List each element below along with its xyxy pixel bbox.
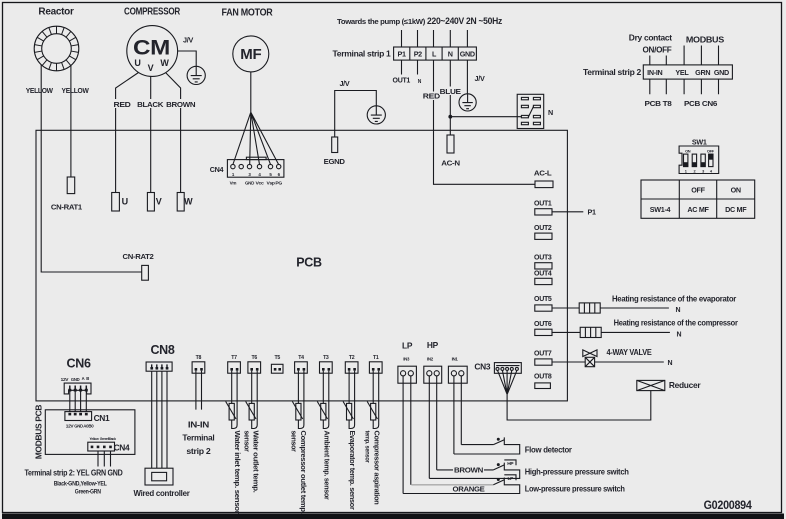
svg-text:CN4: CN4 — [114, 442, 130, 452]
svg-text:Towards the pump (≤1kW): Towards the pump (≤1kW) — [337, 17, 426, 26]
svg-text:P1: P1 — [588, 208, 596, 217]
wire OUT5 to heater — [552, 307, 669, 309]
label BROWN — [166, 99, 196, 108]
svg-text:T2: T2 — [349, 355, 355, 361]
water inlet temp. sensor — [226, 371, 243, 514]
fan motor MF — [233, 36, 269, 72]
svg-text:temp. sensor: temp. sensor — [363, 431, 370, 464]
svg-text:PG: PG — [275, 180, 282, 185]
wires IN pins down — [403, 376, 461, 494]
svg-text:J/V: J/V — [339, 79, 349, 88]
connector T8 — [192, 355, 205, 373]
svg-text:V: V — [148, 63, 154, 73]
svg-text:IN-IN: IN-IN — [647, 68, 662, 77]
svg-text:Terminal: Terminal — [182, 433, 214, 443]
fan wire harness to CN4 — [233, 112, 279, 164]
svg-text:P1: P1 — [397, 50, 405, 59]
svg-text:Evaporator temp. sensor: Evaporator temp. sensor — [348, 431, 357, 510]
svg-text:Terminal strip 2: Terminal strip 2 — [583, 67, 642, 77]
heating resistance of the evaporator — [579, 303, 600, 313]
label RED — [110, 99, 134, 108]
svg-text:N: N — [548, 108, 553, 117]
wire N (BLUE) down to AC-N — [449, 60, 451, 135]
wires CN4 down — [98, 451, 111, 467]
terminal W — [177, 193, 184, 212]
flow detector loop — [454, 437, 520, 454]
SW1 table — [641, 180, 755, 218]
svg-text:sensor: sensor — [242, 431, 251, 452]
svg-text:J/V: J/V — [475, 74, 485, 83]
svg-text:MODBUS: MODBUS — [686, 35, 725, 45]
svg-text:Ambient temp. sensor: Ambient temp. sensor — [322, 431, 331, 500]
svg-text:CN3: CN3 — [474, 362, 490, 372]
wire OUT6 to heater — [552, 331, 670, 333]
svg-text:ON/OFF: ON/OFF — [643, 44, 672, 54]
svg-text:N: N — [448, 50, 453, 59]
svg-text:BLUE: BLUE — [440, 87, 462, 96]
compressor aspiration temp. sensor — [363, 371, 381, 505]
svg-text:4-WAY VALVE: 4-WAY VALVE — [607, 347, 653, 357]
compressor motor CM — [127, 26, 178, 77]
wire OUT7 to 4-way valve — [552, 361, 664, 363]
svg-text:GND: GND — [245, 180, 254, 185]
wire P1 out — [401, 60, 403, 74]
svg-text:ON: ON — [731, 186, 741, 195]
wires T8 to IN-IN — [196, 371, 202, 410]
svg-text:RED: RED — [423, 92, 440, 101]
connector CN6 — [61, 357, 91, 394]
ground symbol (egnd) — [367, 106, 385, 124]
svg-text:220~240V 2N ~50Hz: 220~240V 2N ~50Hz — [427, 15, 503, 26]
reactor ring — [34, 26, 79, 71]
svg-text:GND: GND — [460, 50, 475, 59]
svg-text:CN4: CN4 — [210, 165, 224, 174]
svg-text:AC-L: AC-L — [534, 168, 552, 177]
svg-text:Dry contact: Dry contact — [629, 32, 673, 42]
MODBUS PCB box — [45, 410, 135, 455]
wire L (RED) down to AC-L — [434, 60, 536, 184]
svg-text:Compressor outlet temp.: Compressor outlet temp. — [299, 431, 308, 514]
bottom page bar — [2, 514, 784, 519]
junction node N — [448, 115, 452, 119]
ground symbol (compressor) — [187, 66, 205, 84]
svg-text:OUT7: OUT7 — [534, 349, 552, 358]
ambient temp. sensor — [317, 371, 331, 500]
svg-text:IN2: IN2 — [427, 356, 434, 361]
4-way valve — [583, 347, 652, 367]
svg-text:T1: T1 — [373, 355, 379, 361]
wire reducer to CN3 — [507, 391, 651, 420]
compressor outlet temp. sensor — [290, 371, 308, 514]
terminal V — [147, 193, 154, 212]
wire CM V (BLACK) — [150, 76, 152, 192]
svg-text:Low-pressure pressure switch: Low-pressure pressure switch — [525, 483, 625, 493]
PCB board outline — [36, 130, 567, 401]
connector CN8 — [146, 343, 175, 371]
svg-text:T8: T8 — [196, 355, 202, 361]
connector CN-RAT1 — [67, 177, 75, 194]
svg-text:PCB T8: PCB T8 — [645, 99, 672, 108]
svg-text:IN-IN: IN-IN — [188, 420, 209, 430]
svg-text:GRN: GRN — [695, 68, 710, 77]
connector CN1 — [65, 412, 110, 429]
svg-text:Heating resistance of the evap: Heating resistance of the evaporator — [612, 294, 737, 304]
svg-text:Water outlet temp.: Water outlet temp. — [252, 431, 261, 493]
svg-text:P2: P2 — [414, 50, 422, 59]
wire reactor left to CN-RAT2 — [41, 65, 142, 273]
svg-text:strip 2: strip 2 — [186, 446, 211, 456]
svg-text:G0200894: G0200894 — [704, 498, 753, 512]
wired controller — [134, 468, 191, 498]
svg-text:Flow detector: Flow detector — [525, 445, 573, 455]
wire CM to ground — [178, 51, 197, 66]
svg-text:MODBUS PCB: MODBUS PCB — [34, 405, 44, 459]
connector T5 — [271, 355, 283, 373]
high-pressure loop — [429, 463, 519, 479]
svg-text:IN1: IN1 — [452, 356, 459, 361]
svg-text:SW1-4: SW1-4 — [650, 205, 671, 214]
svg-text:RED: RED — [114, 100, 131, 109]
connector T2 — [345, 355, 358, 373]
svg-text:ORANGE: ORANGE — [453, 487, 486, 494]
connector EGND — [332, 137, 338, 153]
svg-text:T3: T3 — [323, 355, 329, 361]
svg-text:OUT3: OUT3 — [534, 252, 552, 261]
svg-text:12V: 12V — [61, 377, 69, 382]
terminal U — [112, 193, 120, 212]
svg-text:BROWN: BROWN — [454, 467, 483, 474]
svg-text:N: N — [676, 307, 681, 314]
svg-text:N: N — [668, 360, 673, 367]
svg-text:12V: 12V — [66, 423, 74, 428]
connector CN4 (modbus) — [88, 437, 130, 452]
flow detector switch blade — [493, 440, 504, 445]
relay (N) — [517, 94, 553, 128]
connector T6 — [248, 355, 261, 373]
wire GND to ground — [466, 60, 468, 94]
svg-text:YELLOW: YELLOW — [26, 86, 53, 95]
svg-text:OFF: OFF — [691, 186, 705, 195]
svg-text:A: A — [82, 376, 85, 381]
svg-text:T6: T6 — [251, 355, 257, 361]
connector T1 — [369, 355, 382, 373]
svg-text:EGND: EGND — [324, 157, 345, 166]
svg-text:GND: GND — [74, 423, 83, 428]
heating resistance of the compressor — [580, 327, 601, 337]
svg-text:B: B — [86, 376, 89, 381]
wire J/V to EGND and ground — [335, 91, 377, 138]
label BLACK — [136, 99, 164, 108]
svg-text:DC MF: DC MF — [725, 205, 747, 214]
svg-text:Vsp: Vsp — [267, 180, 276, 185]
CN4 pin numbers — [232, 172, 281, 177]
wire N to relay — [450, 116, 521, 118]
svg-text:T4: T4 — [298, 355, 304, 361]
svg-text:T5: T5 — [274, 355, 280, 361]
svg-text:Terminal strip 1: Terminal strip 1 — [333, 49, 392, 59]
svg-text:CN-RAT1: CN-RAT1 — [51, 203, 82, 212]
supply wires into strip — [402, 30, 468, 47]
svg-text:Green-GRN: Green-GRN — [75, 489, 102, 496]
ground symbol (strip GND) — [459, 94, 476, 111]
svg-text:OUT8: OUT8 — [534, 371, 552, 380]
svg-text:Black-GND,Yellow-YEL: Black-GND,Yellow-YEL — [54, 481, 107, 488]
wire P2 out — [417, 60, 419, 74]
svg-text:OUT6: OUT6 — [534, 319, 552, 328]
svg-text:YEL: YEL — [675, 68, 689, 77]
svg-text:ON: ON — [685, 148, 691, 153]
svg-text:PCB: PCB — [296, 256, 322, 270]
svg-text:IN3: IN3 — [403, 356, 410, 361]
svg-text:CN8: CN8 — [150, 343, 174, 357]
svg-text:Compressor aspiration: Compressor aspiration — [373, 431, 382, 505]
svg-text:MF: MF — [240, 46, 261, 63]
svg-text:CN-RAT2: CN-RAT2 — [123, 252, 154, 261]
dip switch SW1 — [679, 138, 719, 174]
connector CN3 — [474, 362, 521, 394]
svg-text:OUT1: OUT1 — [393, 76, 411, 85]
svg-text:Water inlet temp. sensor: Water inlet temp. sensor — [233, 431, 242, 514]
svg-text:V: V — [156, 197, 162, 207]
connector CN-RAT2 — [142, 265, 149, 280]
svg-text:W: W — [184, 197, 193, 207]
svg-text:T7: T7 — [231, 355, 237, 361]
svg-text:U: U — [134, 58, 140, 68]
wire CM W (BROWN) — [166, 73, 181, 193]
connector T3 — [320, 355, 333, 373]
reducer — [637, 380, 702, 390]
svg-text:GND: GND — [71, 377, 80, 382]
svg-text:FAN MOTOR: FAN MOTOR — [222, 8, 274, 19]
svg-text:PCB CN6: PCB CN6 — [684, 99, 717, 108]
svg-text:sensor: sensor — [290, 431, 299, 452]
svg-text:OUT2: OUT2 — [534, 223, 552, 232]
svg-text:U: U — [122, 197, 128, 207]
connector T7 — [228, 355, 241, 373]
CN4 pin names — [230, 180, 283, 185]
svg-text:Black: Black — [108, 437, 117, 441]
svg-text:CM: CM — [133, 37, 170, 60]
wires CN6 to CN1 — [70, 392, 87, 412]
svg-text:OUT4: OUT4 — [534, 269, 552, 278]
svg-text:Yellow: Yellow — [90, 437, 99, 441]
svg-text:LP: LP — [402, 341, 413, 351]
svg-text:J/V: J/V — [183, 36, 193, 45]
evaporator temp. sensor — [343, 371, 357, 510]
svg-text:OUT1: OUT1 — [534, 198, 552, 207]
wires CN8 to wired controller — [152, 371, 167, 468]
svg-text:YELLOW: YELLOW — [62, 86, 89, 95]
connector AC-L — [535, 181, 553, 188]
svg-text:High-pressure pressure switch: High-pressure pressure switch — [525, 467, 629, 477]
svg-text:BLACK: BLACK — [137, 100, 164, 109]
connector CN4 (fan) — [246, 157, 266, 159]
wire CM U (RED) — [116, 73, 139, 193]
connector T4 — [295, 355, 308, 373]
svg-text:CN1: CN1 — [94, 413, 110, 423]
svg-text:OUT5: OUT5 — [534, 294, 552, 303]
svg-text:HP: HP — [427, 340, 439, 350]
svg-text:Terminal strip 2: YEL GRN GND: Terminal strip 2: YEL GRN GND — [25, 468, 123, 477]
svg-text:W: W — [160, 58, 169, 68]
connector AC-N — [447, 135, 454, 153]
svg-text:BROWN: BROWN — [166, 100, 195, 109]
wire reactor right to CN-RAT1 — [70, 66, 72, 178]
svg-text:AC MF: AC MF — [687, 205, 709, 214]
water outlet temp. sensor — [242, 371, 260, 493]
svg-text:Heating resistance of the comp: Heating resistance of the compressor — [614, 317, 739, 327]
svg-text:Reducer: Reducer — [669, 380, 701, 390]
wires out of terminal strip 2 — [650, 79, 719, 94]
wires into terminal strip 2 — [650, 46, 719, 65]
svg-text:Reactor: Reactor — [38, 7, 74, 18]
svg-text:GND: GND — [714, 68, 729, 77]
svg-text:Vm: Vm — [230, 180, 237, 185]
svg-text:COMPRESSOR: COMPRESSOR — [124, 7, 181, 18]
wire MF down — [250, 72, 252, 112]
wire OUT1 to P1 — [552, 211, 583, 213]
svg-text:AC-N: AC-N — [441, 159, 460, 168]
svg-text:Vcc: Vcc — [256, 180, 265, 185]
low-pressure loop — [411, 484, 493, 486]
svg-text:Wired controller: Wired controller — [134, 488, 191, 498]
svg-text:SW1: SW1 — [692, 138, 707, 147]
svg-text:N: N — [677, 331, 682, 338]
svg-text:OFF: OFF — [707, 148, 715, 153]
svg-text:CN6: CN6 — [67, 357, 91, 371]
